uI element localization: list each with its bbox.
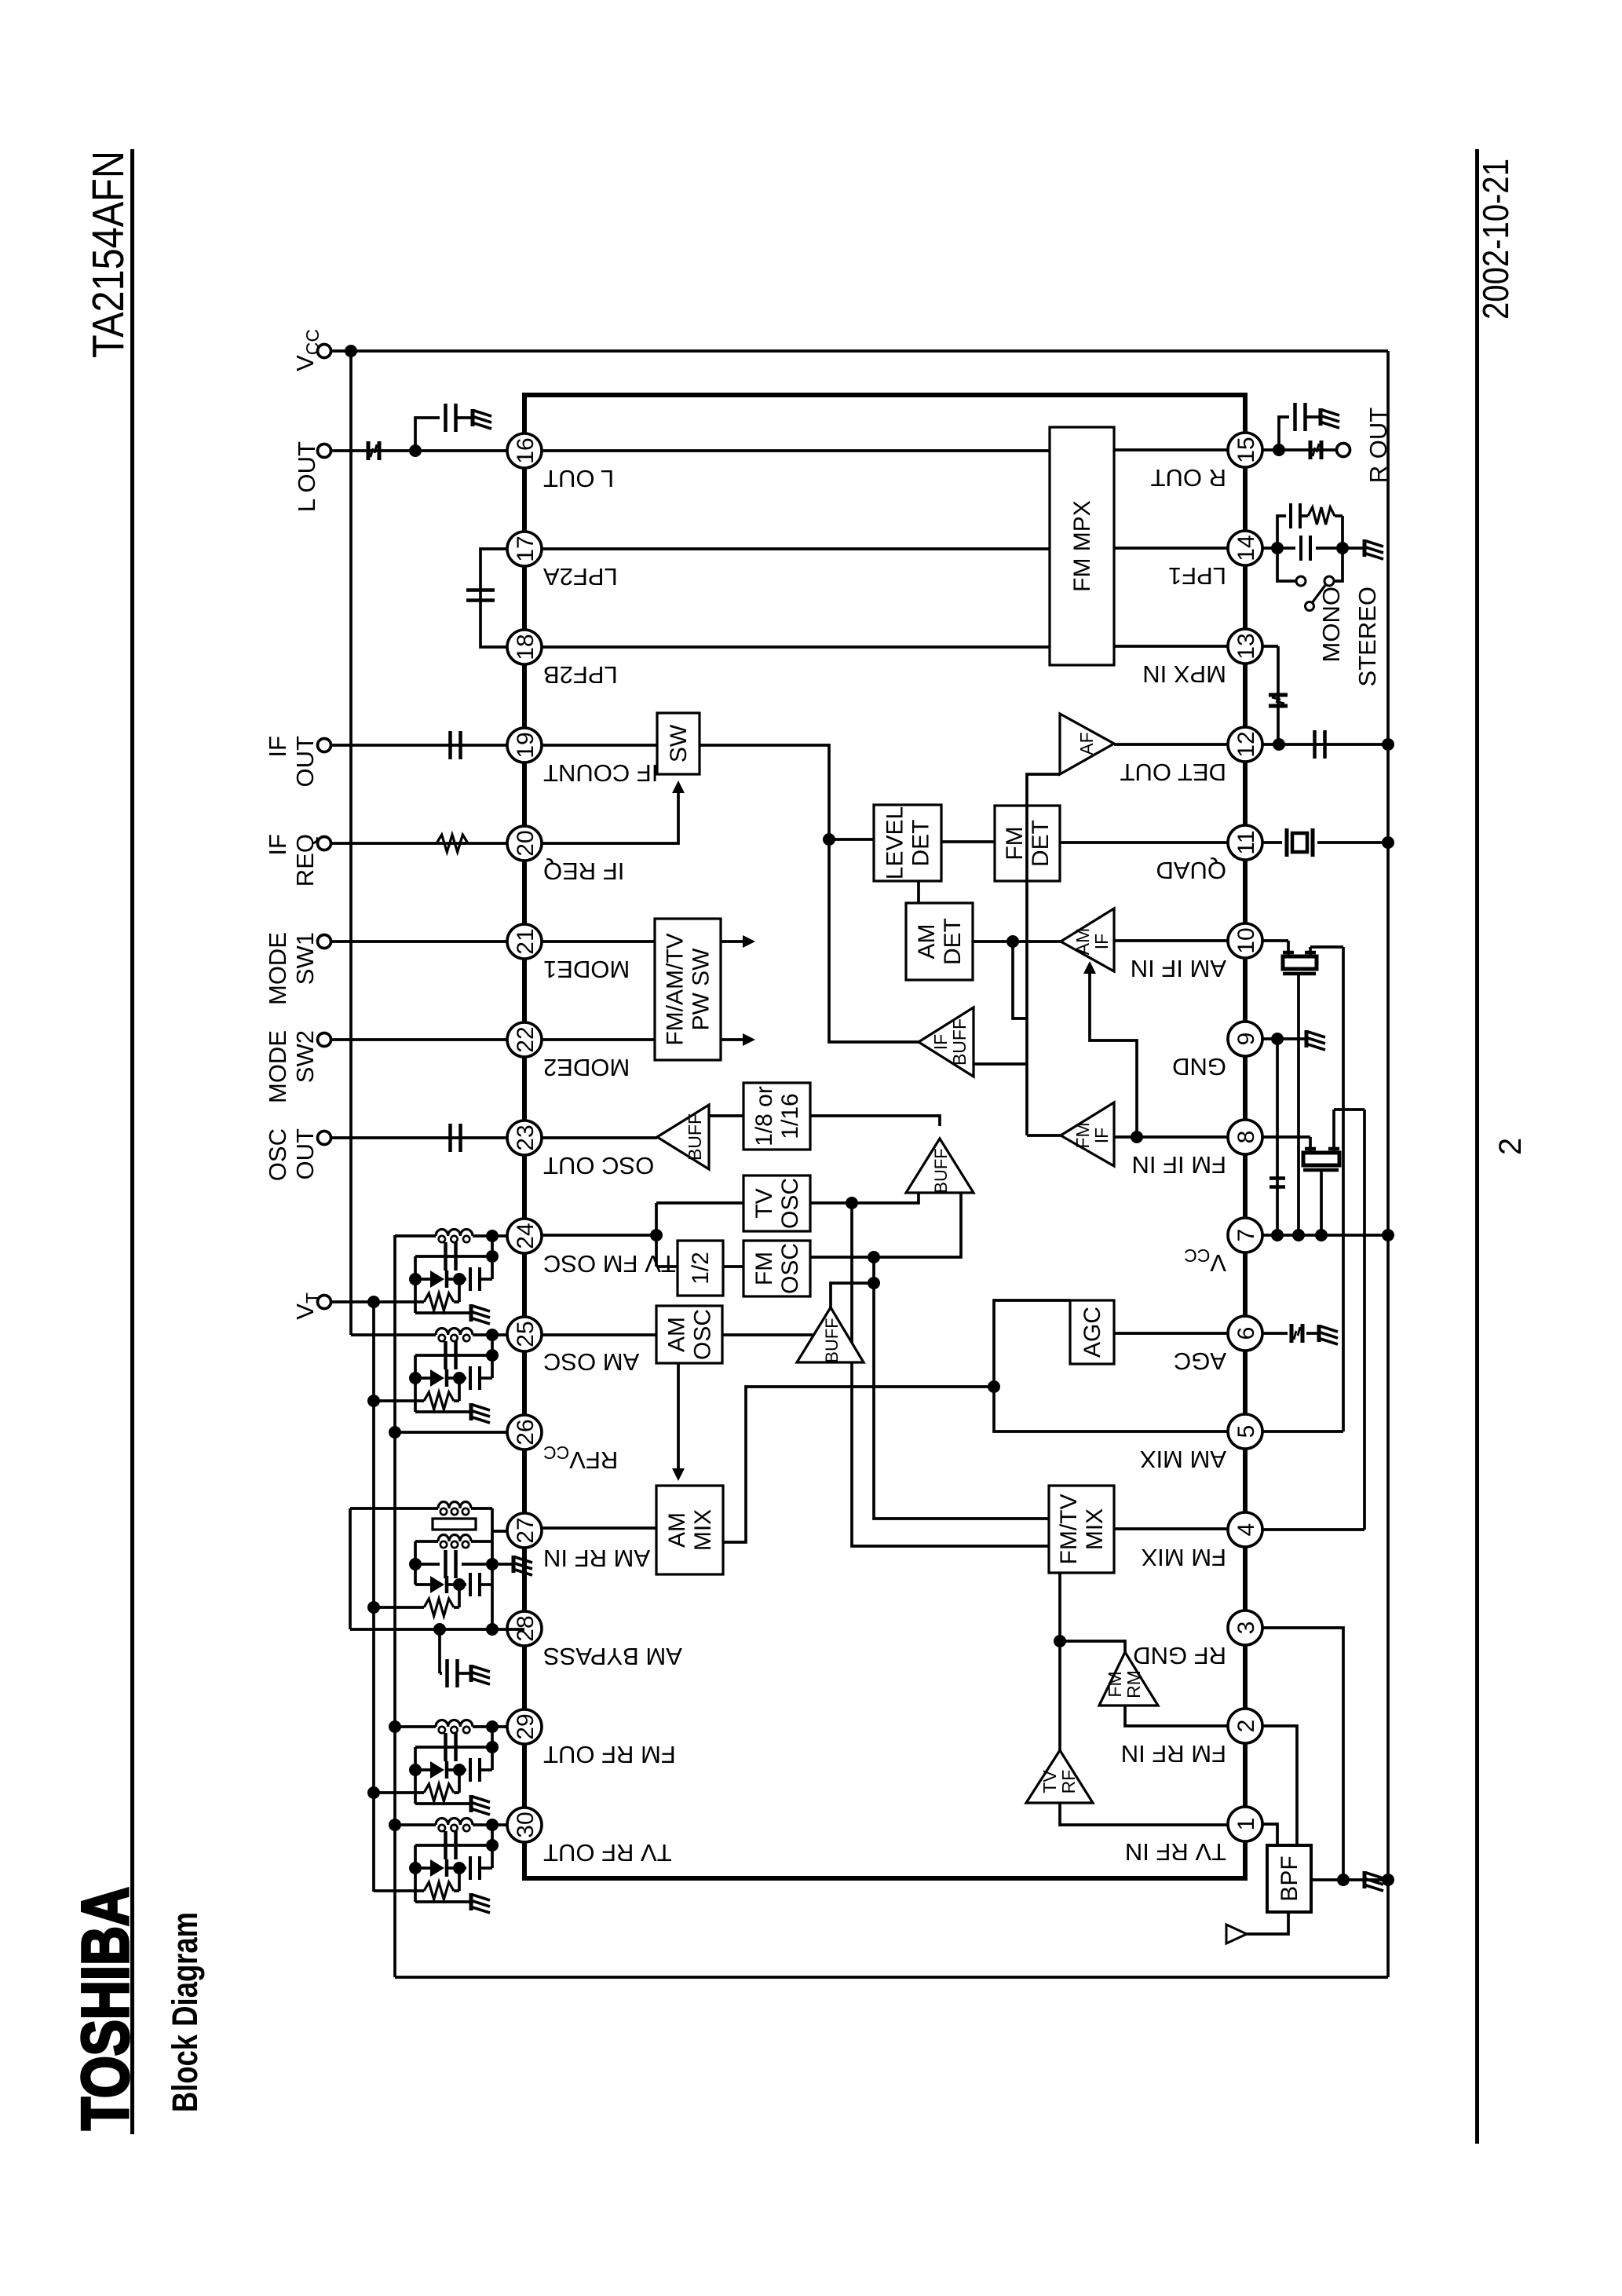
svg-text:OSC: OSC — [264, 1128, 291, 1181]
wire VCC rail right side down — [351, 349, 1388, 353]
capacitor tank — [444, 1341, 448, 1369]
capacitor series OSC OUT — [448, 1124, 452, 1152]
varactor diode — [430, 1761, 444, 1779]
wire pin10 drop to filter — [1262, 939, 1288, 942]
resistor VT feed — [374, 1300, 424, 1303]
svg-text:BPF: BPF — [1277, 1855, 1302, 1901]
svg-text:AM MIX: AM MIX — [1139, 1446, 1226, 1473]
wire bus to AM IF filter — [1310, 945, 1343, 949]
wire tank bus — [491, 1727, 494, 1770]
svg-text:STEREO: STEREO — [1353, 587, 1381, 686]
svg-text:IF COUNT: IF COUNT — [543, 759, 658, 787]
wire FM OSC output — [810, 1257, 1049, 1519]
wire bottom ground rail — [1386, 351, 1390, 1977]
junction FM OSC output — [868, 1251, 880, 1263]
terminal VCC — [318, 345, 331, 358]
wire pin2 to FM RM — [1125, 1706, 1228, 1726]
wire tank cap branch — [415, 1354, 492, 1357]
op-amp AF — [1060, 714, 1114, 774]
svg-text:TV RF IN: TV RF IN — [1125, 1838, 1226, 1866]
svg-text:R OUT: R OUT — [1364, 408, 1392, 484]
pin 25 circle — [507, 1317, 542, 1351]
wire tank cap branch — [415, 1746, 492, 1749]
junction TV OSC output — [846, 1197, 858, 1209]
svg-text:8: 8 — [1233, 1131, 1259, 1144]
wire pin25 to AM OSC — [542, 1333, 656, 1336]
wire FM IF output — [1027, 1134, 1061, 1137]
pin 10 circle — [1228, 923, 1262, 958]
wire bus to divider 1/2 — [656, 1265, 678, 1268]
wire FM OSC to BUFF2 — [874, 1193, 961, 1257]
svg-text:20: 20 — [513, 830, 539, 856]
svg-text:IF: IF — [930, 1034, 951, 1050]
capacitor L OUT to ground — [444, 404, 448, 432]
ground AGC — [1319, 1325, 1338, 1344]
capacitor AM bypass — [440, 1672, 442, 1675]
wire tank ground branch — [415, 1410, 469, 1413]
svg-text:MODE: MODE — [264, 932, 291, 1005]
block FM MPX — [1050, 427, 1114, 665]
svg-text:AM OSC: AM OSC — [543, 1348, 639, 1376]
wire pin1 to BPF — [1262, 1824, 1277, 1845]
svg-text:25: 25 — [513, 1321, 539, 1347]
wire VT rail — [372, 1302, 375, 1892]
svg-text:6: 6 — [1233, 1327, 1259, 1340]
junction TV FM OSC — [650, 1229, 663, 1241]
block LEVEL DET — [874, 805, 941, 881]
svg-text:FM RF OUT: FM RF OUT — [543, 1741, 676, 1768]
wire BPF ground leg — [1311, 1878, 1388, 1881]
block divider 1/2 — [678, 1241, 723, 1296]
varactor branch — [415, 1278, 430, 1281]
svg-text:30: 30 — [513, 1812, 539, 1837]
svg-text:AF: AF — [1076, 732, 1097, 755]
wire IF OUT to pin 19 — [331, 744, 507, 747]
junction DET OUT — [1273, 738, 1285, 751]
svg-text:IF: IF — [264, 834, 291, 856]
svg-text:5: 5 — [1233, 1425, 1259, 1439]
block AM MIX — [656, 1486, 723, 1574]
resistor VT feed — [367, 1786, 380, 1799]
block AM DET — [906, 903, 973, 980]
junction tank — [486, 1720, 499, 1733]
capacitor LPF1 series — [1277, 547, 1295, 550]
antenna symbol — [1226, 1925, 1247, 1943]
capacitor AGC — [1290, 1324, 1294, 1343]
wire AM bypass branch — [438, 1629, 441, 1673]
junction tank cap branch — [486, 1349, 499, 1362]
wire TV RF output to mix — [1058, 1573, 1061, 1750]
junction tank cap branch — [486, 1741, 499, 1753]
terminal IF OUT — [318, 739, 331, 752]
ferrite core bar antenna — [433, 1519, 476, 1530]
wire IF BUFF input stub — [974, 1062, 1027, 1066]
svg-text:29: 29 — [513, 1713, 539, 1739]
svg-text:7: 7 — [1233, 1229, 1259, 1242]
wire pin2 to BPF — [1262, 1726, 1297, 1845]
svg-text:SW1: SW1 — [291, 932, 319, 985]
capacitor series L OUT — [367, 441, 371, 460]
varactor branch — [415, 1866, 430, 1870]
junction varactor top — [409, 1372, 422, 1384]
pin 22 circle — [507, 1022, 542, 1057]
svg-text:DET: DET — [908, 820, 934, 867]
pin 30 circle — [507, 1808, 542, 1842]
wire LEVEL DET to AM DET — [917, 881, 920, 903]
ground AM bypass — [471, 1665, 490, 1684]
ground tank — [471, 1795, 490, 1815]
svg-text:TV: TV — [751, 1188, 777, 1218]
wire tank top link — [414, 1355, 417, 1412]
junction pin26 RFVcc rail — [389, 1426, 401, 1439]
junction RFVcc pin29 — [389, 1720, 401, 1733]
svg-text:2: 2 — [1233, 1720, 1259, 1733]
svg-text:IF: IF — [264, 736, 291, 758]
terminal OSC OUT — [318, 1132, 331, 1145]
varactor diode — [430, 1859, 444, 1877]
wire RFVcc rail — [393, 1235, 396, 1977]
wire FM/TV MIX to pin4 — [1114, 1527, 1228, 1530]
wire L OUT to pin 16 — [331, 449, 507, 452]
wire pin7 to rail — [1262, 1234, 1388, 1237]
junction LPF1 B — [1336, 542, 1349, 554]
svg-text:24: 24 — [513, 1223, 539, 1249]
wire pin5 riser to AGC — [994, 1300, 1228, 1431]
pin 24 circle — [507, 1219, 542, 1253]
junction VCC — [345, 345, 357, 357]
wire MODE SW1 to pin 21 — [331, 940, 507, 943]
filter FM IF ceramic — [1309, 1137, 1312, 1153]
block FM DET — [995, 806, 1060, 881]
wire TV OSC output — [810, 1203, 1049, 1546]
pin 17 circle — [507, 532, 542, 566]
svg-text:LPF1: LPF1 — [1168, 562, 1226, 590]
capacitor LPF2 loop — [466, 598, 495, 602]
arrow MODE2 out — [721, 1038, 743, 1041]
pin 11 circle — [1228, 825, 1262, 860]
wire tank ground branch — [415, 1900, 469, 1903]
resistor AM VT feed — [367, 1601, 380, 1614]
svg-text:L OUT: L OUT — [543, 465, 614, 492]
svg-text:22: 22 — [513, 1026, 539, 1052]
junction varactor — [453, 1862, 466, 1874]
header rule — [130, 149, 134, 2134]
pin 12 circle — [1228, 727, 1262, 762]
pin 14 circle — [1228, 531, 1262, 565]
wire pin19 to SW — [542, 744, 657, 747]
svg-text:GND: GND — [1172, 1053, 1226, 1080]
svg-text:OSC OUT: OSC OUT — [543, 1152, 654, 1179]
pin 7 circle — [1228, 1218, 1262, 1252]
ground tank — [471, 1304, 490, 1324]
wire pin16 to FM MPX — [542, 449, 1050, 452]
varactor diode — [430, 1270, 444, 1288]
svg-text:TV: TV — [1039, 1770, 1060, 1793]
junction LEVEL DET tap — [823, 833, 835, 846]
svg-text:AM: AM — [1072, 928, 1093, 956]
svg-text:14: 14 — [1233, 535, 1259, 561]
resonator QUAD — [1285, 828, 1289, 857]
wire pin23 to BUFF — [542, 1136, 657, 1139]
svg-text:FM MPX: FM MPX — [1069, 500, 1095, 592]
svg-text:1/16: 1/16 — [777, 1093, 803, 1139]
svg-text:TV RF OUT: TV RF OUT — [543, 1839, 672, 1866]
wire antenna to BPF — [1245, 1912, 1288, 1934]
svg-text:OUT: OUT — [291, 1128, 319, 1180]
svg-text:AM: AM — [914, 924, 940, 960]
svg-text:LPF2B: LPF2B — [543, 661, 618, 689]
svg-text:QUAD: QUAD — [1156, 857, 1226, 884]
svg-text:FM/TV: FM/TV — [1056, 1494, 1082, 1565]
wire VT feed link — [458, 1868, 461, 1891]
op-amp BUFF2 — [906, 1139, 974, 1193]
wire FM mixer output bus — [1363, 1110, 1366, 1530]
wire varactor to pin28 link — [491, 1585, 494, 1629]
wire pin27 bus — [491, 1508, 494, 1585]
junction varactor top — [409, 1862, 422, 1874]
wire AM DET branch — [1013, 941, 1027, 1018]
wire pin8 to FM IF — [1114, 1135, 1228, 1139]
op-amp AM IF — [1061, 909, 1114, 971]
capacitor tank — [444, 1242, 448, 1270]
wire AM MIX output — [723, 1387, 994, 1542]
pin 18 circle — [507, 630, 542, 664]
pin 28 circle — [507, 1611, 542, 1646]
svg-text:FM: FM — [1105, 1671, 1125, 1697]
wire tank bus — [491, 1335, 494, 1378]
svg-text:OSC: OSC — [777, 1243, 803, 1294]
ground tank — [471, 1403, 490, 1423]
IC body TA2154AFN — [524, 395, 1245, 1878]
wire pin13 to FM MPX — [1114, 645, 1228, 648]
pin 27 circle — [507, 1513, 542, 1548]
terminal VT — [318, 1296, 331, 1309]
pin 21 circle — [507, 924, 542, 959]
wire divider to BUFF2 — [810, 1116, 940, 1126]
wire pin20 to SW arrow — [542, 793, 678, 843]
terminal R OUT — [1337, 444, 1350, 457]
wire AGC to pin6 — [1114, 1332, 1228, 1335]
ground R OUT branch — [1321, 408, 1339, 428]
wire FM DET to AF — [1027, 774, 1060, 806]
svg-text:FM: FM — [1002, 826, 1028, 860]
wire pin27 riser — [493, 1530, 507, 1533]
svg-text:TA2154AFN: TA2154AFN — [83, 151, 133, 358]
junction varactor top — [409, 1764, 422, 1776]
svg-text:21: 21 — [513, 928, 539, 954]
svg-text:17: 17 — [513, 536, 539, 561]
inductor AM RF primary — [350, 1507, 438, 1510]
junction BUFF3 join — [868, 1277, 880, 1289]
inductor AM RF secondary — [415, 1540, 438, 1543]
svg-text:RF: RF — [1058, 1770, 1079, 1794]
junction RF amp outputs — [1054, 1635, 1066, 1647]
wire MODE SW2 to pin 22 — [331, 1038, 507, 1041]
wire pin28 riser — [350, 1628, 524, 1631]
wire pin14 to FM MPX — [1114, 547, 1228, 550]
wire pin24 riser to osc bus — [542, 1234, 656, 1237]
svg-text:23: 23 — [513, 1124, 539, 1150]
capacitor R OUT to ground — [1293, 403, 1297, 431]
ground BPF — [1364, 1871, 1383, 1891]
wire VT to rail — [331, 1300, 374, 1303]
capacitor tank — [444, 1831, 448, 1859]
svg-text:FM/AM/TV: FM/AM/TV — [663, 933, 689, 1045]
wire tank bus — [491, 1236, 494, 1279]
wire pin21 to PW SW — [542, 940, 655, 943]
arrow inject into AM IF — [1083, 961, 1096, 974]
wire pin15 to FM MPX — [1114, 448, 1228, 452]
op-amp FM IF — [1061, 1102, 1114, 1166]
junction R OUT decoupling — [1273, 444, 1285, 456]
svg-text:BUFF: BUFF — [822, 1318, 842, 1362]
pin 6 circle — [1228, 1316, 1262, 1351]
svg-text:4: 4 — [1233, 1523, 1259, 1537]
svg-text:AM RF IN: AM RF IN — [543, 1545, 650, 1572]
wire VT feed link — [458, 1279, 461, 1302]
wire pin5 drop — [1262, 1430, 1343, 1433]
junction AM filter common — [1292, 1229, 1305, 1241]
pin 15 circle — [1228, 433, 1262, 467]
op-amp BUFF3 — [797, 1307, 864, 1362]
svg-text:BUFF: BUFF — [949, 1018, 970, 1066]
wire FM RM output to mix — [1060, 1641, 1125, 1652]
wire AM IF to AM DET — [973, 940, 1013, 943]
capacitor VCC decoupling — [1269, 1185, 1285, 1189]
wire bus to FM IF filter — [1334, 1108, 1364, 1111]
wire AM IF output — [1013, 940, 1061, 943]
junction pin7 rail — [1382, 1229, 1394, 1241]
capacitor LPF1 loop — [1289, 503, 1292, 528]
wire pin8 drop to filter — [1262, 1135, 1310, 1139]
junction varactor — [453, 1372, 466, 1384]
capacitor series IF OUT — [448, 731, 452, 759]
junction L OUT decoupling — [409, 444, 422, 457]
resistor VT feed — [374, 1889, 424, 1892]
pin 23 circle — [507, 1121, 542, 1155]
wire pin3 RF GND — [1262, 1628, 1343, 1880]
wire AM tank top link — [414, 1541, 417, 1585]
svg-text:DET: DET — [940, 918, 966, 965]
pin 16 circle — [507, 433, 542, 468]
junction tank cap branch — [486, 1839, 499, 1852]
wire pin11 between DET blocks — [941, 840, 995, 843]
wire detector bus — [1025, 806, 1028, 1135]
terminal MODE SW1 — [318, 935, 331, 949]
wire AF to pin12 — [1114, 743, 1228, 746]
op-amp IF BUFF — [919, 1007, 974, 1077]
pin 5 circle — [1228, 1414, 1262, 1449]
terminal IF REQ — [318, 837, 331, 850]
junction decoupling at pin7 — [1271, 1229, 1284, 1241]
wire VT feed link — [458, 1378, 461, 1401]
wire tank ground branch — [415, 1802, 469, 1805]
junction AM varactor — [453, 1578, 466, 1591]
svg-text:15: 15 — [1233, 437, 1259, 462]
terminal L OUT — [318, 444, 331, 458]
ground L OUT branch — [473, 409, 491, 429]
pin 3 circle — [1228, 1610, 1262, 1645]
wire left border of application loop — [395, 1976, 1388, 1979]
svg-text:9: 9 — [1233, 1033, 1259, 1046]
junction pin9 — [1271, 1033, 1284, 1045]
wire pin15 to R OUT terminal — [1262, 448, 1337, 452]
svg-text:MIX: MIX — [690, 1509, 716, 1551]
resistor LPF1 loop — [1308, 507, 1335, 525]
wire MPX IN coupling — [1277, 646, 1280, 744]
svg-text:11: 11 — [1233, 830, 1259, 854]
inductor tank coil — [436, 1720, 473, 1727]
svg-text:16: 16 — [513, 437, 539, 463]
svg-text:MODE2: MODE2 — [543, 1054, 630, 1081]
wire tank bus — [491, 1825, 494, 1868]
ground LPF1 — [1343, 547, 1363, 550]
wire pin17 to FM MPX — [542, 547, 1050, 550]
junction RFVcc pin30 — [389, 1819, 401, 1831]
wire pin27 to AM MIX — [542, 1526, 656, 1530]
varactor AM branch — [415, 1583, 430, 1586]
ground tank — [471, 1893, 490, 1913]
svg-text:IF REQ: IF REQ — [543, 857, 624, 885]
capacitor varactor series — [459, 1768, 466, 1771]
capacitor tank — [444, 1733, 448, 1761]
svg-text:LPF2A: LPF2A — [543, 563, 618, 590]
wire tank cap branch — [415, 1844, 492, 1847]
svg-text:PW SW: PW SW — [689, 948, 714, 1031]
svg-text:1/2: 1/2 — [688, 1252, 714, 1285]
svg-text:RM: RM — [1123, 1670, 1144, 1698]
svg-text:27: 27 — [513, 1517, 539, 1543]
wire pin11 to rail — [1262, 841, 1282, 844]
junction pin28 bus — [486, 1623, 499, 1636]
wire 1/2 to FM OSC — [723, 1265, 743, 1268]
wire pin18 to FM MPX — [542, 645, 1050, 649]
block FM/AM/TV PW SW — [655, 919, 721, 1060]
junction BPF ground — [1337, 1874, 1350, 1886]
pin 29 circle — [507, 1709, 542, 1744]
svg-text:REQ: REQ — [291, 834, 319, 887]
svg-text:MIX: MIX — [1082, 1508, 1108, 1550]
filter AM IF ceramic — [1287, 941, 1290, 956]
svg-text:BUFF: BUFF — [931, 1148, 951, 1193]
block divider 1/8 or 1/16 — [743, 1083, 810, 1150]
block AM OSC — [656, 1306, 722, 1363]
wire pin12 to ground rail — [1262, 743, 1388, 746]
varactor branch — [415, 1768, 430, 1771]
junction AM MIX output to AGC net — [988, 1380, 1000, 1393]
arrow AM OSC to AM MIX — [677, 1363, 680, 1468]
wire AM OSC to BUFF3 — [722, 1335, 831, 1362]
wire pin26 RFVcc riser — [395, 1431, 507, 1434]
wire pin9 ground — [1262, 1037, 1305, 1040]
wire pin6 AGC cap — [1262, 1332, 1288, 1335]
pin 13 circle — [1228, 629, 1262, 664]
junction tank — [486, 1230, 499, 1242]
block AGC — [1070, 1300, 1114, 1364]
wire VT feed link — [458, 1770, 461, 1793]
wire L OUT decoupling branch — [415, 418, 440, 451]
ground pin9 GND — [1306, 1030, 1325, 1050]
capacitor series R OUT — [1309, 441, 1313, 459]
wire FM DET to pin11 — [1060, 841, 1228, 844]
svg-text:SW: SW — [666, 724, 692, 762]
svg-text:MPX IN: MPX IN — [1142, 660, 1226, 688]
junction QUAD rail — [1382, 836, 1394, 849]
svg-text:AGC: AGC — [1174, 1347, 1226, 1375]
wire AM loop top link — [349, 1508, 352, 1629]
arrow MODE1 out — [721, 940, 743, 943]
wire tank top link — [414, 1845, 417, 1902]
